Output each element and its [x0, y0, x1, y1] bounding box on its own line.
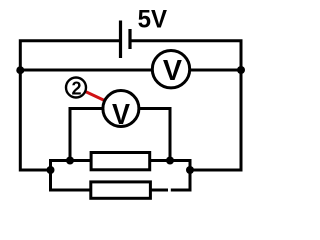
- wire: voltmeter V1 branch across top (y=70): [20, 69, 241, 72]
- resistor R2: [91, 182, 151, 198]
- junction dot node B (left rail bottom): [47, 166, 55, 174]
- junction dot node D (right rail bottom): [186, 166, 194, 174]
- battery BT1 long plate: [119, 21, 122, 59]
- red pointer line from callout 2 to voltmeter V2: [80, 89, 112, 104]
- junction dot node C (V2 right leg / R1 row): [166, 157, 174, 165]
- junction dot node at left rail / V1 branch: [16, 66, 24, 74]
- svg-text:V: V: [163, 55, 182, 87]
- wire: bottom resistor right lead (before small gap): [152, 189, 169, 192]
- svg-text:5V: 5V: [138, 6, 168, 34]
- battery BT1 short plate: [128, 29, 131, 49]
- wire: step from node A down to node B on left: [51, 161, 90, 191]
- wire: voltmeter V2 branch (left leg, across, right leg): [70, 109, 170, 161]
- wire: top-left from battery to left rail, left rail down, bottom-left to node: [20, 41, 120, 170]
- wire: top resistor row (node A to node C through R1 leads): [70, 159, 170, 162]
- svg-text:V: V: [112, 99, 131, 131]
- svg-text:2: 2: [71, 79, 81, 99]
- voltmeter V1: [152, 50, 189, 87]
- junction dot node at right rail / V1 branch: [237, 66, 245, 74]
- voltmeter V2: [103, 91, 139, 131]
- wire: top-right from battery to right rail, right rail down, bottom-right to node: [130, 41, 241, 170]
- resistor R1: [91, 153, 150, 170]
- wire: step from node C down to node D on right: [170, 161, 190, 191]
- callout label 2 (circled): [66, 78, 86, 99]
- junction dot node A (V2 left leg / R1 row): [66, 157, 74, 165]
